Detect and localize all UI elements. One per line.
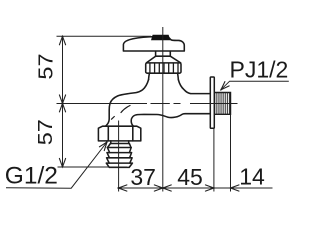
svg-text:G1/2: G1/2	[5, 163, 58, 190]
svg-text:37: 37	[130, 164, 156, 190]
svg-text:PJ1/2: PJ1/2	[230, 57, 289, 83]
svg-text:45: 45	[177, 164, 203, 190]
svg-text:57: 57	[34, 119, 57, 145]
svg-text:14: 14	[239, 164, 265, 190]
svg-text:57: 57	[34, 53, 57, 79]
